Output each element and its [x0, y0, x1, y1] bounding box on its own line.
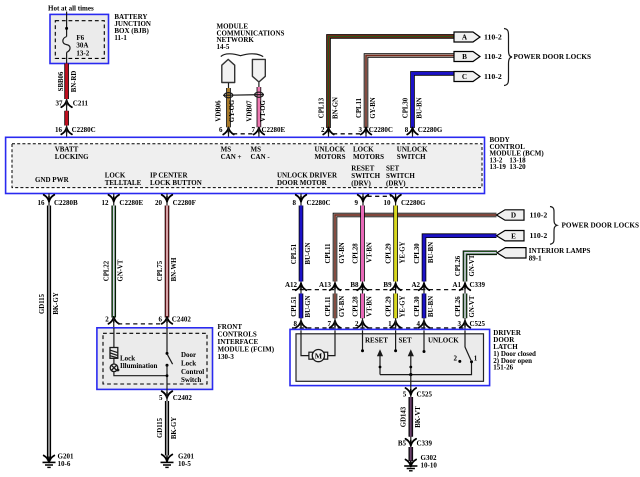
svg-text:10-5: 10-5: [178, 460, 191, 468]
connector arrows into BCM pins 2 3 8: [328, 127, 330, 137]
wire fuse to box bottom: [66, 52, 68, 63]
svg-text:M: M: [315, 351, 323, 360]
svg-text:110-2: 110-2: [530, 231, 548, 240]
wire into lock illumination: [113, 328, 115, 348]
svg-text:Switch: Switch: [181, 376, 201, 384]
svg-text:4: 4: [417, 320, 421, 328]
svg-text:16: 16: [55, 126, 63, 134]
svg-text:POWER DOOR LOCKS: POWER DOOR LOCKS: [514, 53, 591, 61]
ground G302 10-10: [406, 460, 417, 467]
svg-text:LOCK BUTTON: LOCK BUTTON: [150, 179, 202, 187]
svg-text:GN-VT: GN-VT: [469, 295, 476, 317]
svg-text:C339: C339: [470, 281, 486, 289]
svg-text:BU-BN: BU-BN: [417, 97, 424, 118]
svg-text:GN-VT: GN-VT: [118, 259, 125, 281]
svg-text:GY-BN: GY-BN: [339, 296, 346, 317]
wire CPL11 GY-BN to arrow D: [335, 215, 497, 282]
svg-text:CPL28: CPL28: [353, 296, 360, 317]
arrow connector E: [497, 231, 525, 241]
svg-text:Control: Control: [181, 368, 204, 376]
svg-text:CPL29: CPL29: [386, 296, 393, 317]
arrow connector A: [454, 32, 480, 42]
svg-text:CPL30: CPL30: [414, 296, 421, 317]
svg-text:10-10: 10-10: [421, 461, 438, 469]
dashed link 2-3: [333, 133, 362, 135]
svg-text:B8: B8: [350, 281, 359, 289]
wire CPL26 GN-VT to interior lamps: [465, 253, 497, 282]
svg-text:151-26: 151-26: [493, 363, 513, 371]
body control module BCM box: [6, 137, 485, 193]
svg-text:C2280G: C2280G: [401, 199, 426, 207]
svg-text:VDB06: VDB06: [216, 100, 223, 122]
svg-text:GD115: GD115: [157, 417, 164, 438]
svg-text:MOTORS: MOTORS: [315, 153, 346, 161]
svg-text:CPL13: CPL13: [319, 97, 326, 118]
wire VDB06 GY-OG: [228, 83, 230, 90]
svg-text:2: 2: [355, 320, 359, 328]
wire VDB07 VT-OG: [258, 83, 260, 91]
dashed link 6-7: [233, 133, 254, 135]
svg-text:BU-BN: BU-BN: [428, 296, 435, 317]
svg-text:37: 37: [56, 100, 64, 108]
battery junction box BJB: [50, 14, 109, 63]
svg-text:A1: A1: [452, 281, 461, 289]
motor M: [309, 352, 313, 359]
svg-text:VDB07: VDB07: [247, 100, 254, 122]
svg-text:(DRV): (DRV): [351, 179, 371, 187]
svg-text:CPL26: CPL26: [455, 296, 462, 317]
wire CPL29 YE-GY lower: [393, 294, 398, 319]
svg-text:89-1: 89-1: [529, 255, 542, 263]
latch UNLOCK contact: [423, 330, 425, 350]
svg-text:BK-GY: BK-GY: [53, 292, 60, 314]
latch bottom wire: [380, 363, 472, 375]
svg-text:A: A: [462, 34, 468, 42]
svg-text:110-2: 110-2: [530, 211, 548, 220]
svg-text:CPL11: CPL11: [356, 97, 363, 118]
svg-text:CPL22: CPL22: [104, 260, 111, 281]
svg-text:B5: B5: [398, 439, 407, 447]
svg-text:10: 10: [384, 199, 392, 207]
arrow connector B: [454, 52, 480, 62]
svg-text:CPL51: CPL51: [291, 243, 298, 264]
svg-text:BN-GN: BN-GN: [333, 97, 340, 119]
svg-text:1: 1: [388, 320, 392, 328]
svg-text:GY-BN: GY-BN: [370, 97, 377, 118]
svg-text:14-5: 14-5: [217, 43, 230, 51]
svg-text:VT-BN: VT-BN: [367, 296, 374, 317]
svg-text:5: 5: [403, 390, 407, 398]
door lock control switch: [166, 328, 168, 352]
svg-text:110-2: 110-2: [484, 72, 502, 81]
svg-text:B: B: [462, 53, 467, 61]
BCM bottom connector pins: [48, 194, 50, 206]
svg-text:BK-VT: BK-VT: [415, 406, 422, 428]
brace power door locks bottom: [550, 207, 557, 245]
connector C2402 pin 5: [162, 391, 173, 398]
svg-text:B9: B9: [383, 281, 392, 289]
wire GD115 BK-GY left: [47, 206, 51, 461]
connector C525 row: [292, 327, 466, 329]
svg-text:GN-VT: GN-VT: [469, 254, 476, 276]
svg-text:Door: Door: [181, 351, 196, 359]
svg-text:UNLOCK: UNLOCK: [428, 336, 459, 344]
dashed link 9-10: [368, 195, 392, 197]
svg-text:C525: C525: [470, 320, 486, 328]
dashed link 2-6: [118, 323, 163, 325]
svg-text:2: 2: [105, 315, 109, 323]
wire SBB06 BN-RD upper: [64, 64, 69, 100]
svg-text:7: 7: [328, 320, 332, 328]
network connector right: [252, 59, 265, 82]
svg-text:BN-RD: BN-RD: [71, 71, 78, 93]
wire CPL26 GN-VT lower: [463, 294, 468, 319]
svg-text:C2402: C2402: [173, 394, 193, 402]
svg-text:CPL75: CPL75: [157, 260, 164, 281]
connector C525 pin 5: [410, 375, 412, 397]
svg-text:MOTORS: MOTORS: [353, 153, 384, 161]
svg-text:POWER DOOR LOCKS: POWER DOOR LOCKS: [562, 222, 639, 230]
wire CPL22 GN-VT: [111, 206, 116, 318]
wire CPL11 GY-BN lower: [333, 294, 338, 319]
svg-text:C2280E: C2280E: [262, 126, 286, 134]
svg-text:GND PWR: GND PWR: [35, 176, 70, 184]
network connector left: [222, 59, 235, 82]
svg-text:CPL51: CPL51: [291, 296, 298, 317]
svg-text:13-19 13-20: 13-19 13-20: [490, 163, 527, 171]
svg-text:GY-OG: GY-OG: [229, 99, 236, 122]
svg-text:C211: C211: [73, 100, 89, 108]
svg-text:CPL29: CPL29: [386, 243, 393, 264]
svg-text:C525: C525: [417, 390, 433, 398]
fuse F6 30A: [63, 37, 70, 53]
svg-text:D: D: [511, 212, 516, 220]
svg-text:6: 6: [159, 315, 163, 323]
svg-text:3: 3: [359, 126, 363, 134]
wire CPL28 VT-BN upper: [360, 206, 365, 282]
wire CPL30 BU-BN to arrow C: [413, 73, 455, 128]
svg-text:TELLTALE: TELLTALE: [105, 179, 142, 187]
svg-text:RESET: RESET: [365, 336, 388, 344]
svg-text:Illumination: Illumination: [120, 362, 157, 370]
svg-text:110-2: 110-2: [484, 33, 502, 42]
svg-text:C: C: [462, 73, 467, 81]
svg-text:20: 20: [155, 199, 163, 207]
svg-text:A2: A2: [411, 281, 420, 289]
svg-text:C2280E: C2280E: [119, 199, 143, 207]
svg-text:C2280F: C2280F: [173, 199, 196, 207]
svg-text:A13: A13: [319, 281, 332, 289]
svg-text:E: E: [511, 232, 516, 240]
svg-text:Lock: Lock: [181, 359, 196, 367]
connector C339 row: [300, 282, 302, 294]
svg-text:GD143: GD143: [401, 406, 408, 427]
svg-text:CPL30: CPL30: [403, 97, 410, 118]
svg-text:CAN -: CAN -: [251, 153, 271, 161]
arrow connector C: [454, 72, 480, 82]
svg-text:C339: C339: [417, 439, 433, 447]
svg-text:130-3: 130-3: [218, 353, 235, 361]
svg-text:16: 16: [38, 199, 46, 207]
ground G201 10-5: [162, 455, 173, 462]
svg-text:6: 6: [219, 126, 223, 134]
svg-text:C2402: C2402: [172, 315, 192, 323]
wire CPL75 BN-WH: [165, 206, 170, 318]
wire SBB06 BN-RD lower: [64, 111, 69, 126]
svg-text:SWITCH: SWITCH: [397, 153, 426, 161]
svg-text:12: 12: [102, 199, 110, 207]
svg-text:A12: A12: [285, 281, 298, 289]
svg-text:BN-WH: BN-WH: [171, 257, 178, 282]
svg-text:Hot at all times: Hot at all times: [48, 5, 94, 13]
svg-text:110-2: 110-2: [484, 52, 502, 61]
svg-text:GY-BN: GY-BN: [339, 242, 346, 263]
svg-text:CPL26: CPL26: [455, 255, 462, 276]
svg-text:DOOR MOTOR: DOOR MOTOR: [277, 179, 328, 187]
svg-text:1: 1: [474, 355, 478, 363]
svg-text:BK-GY: BK-GY: [171, 417, 178, 439]
wire CPL30 BU-BN to arrow E: [424, 236, 497, 282]
front controls interface module FCIM box: [97, 328, 213, 390]
latch door switch: [464, 330, 466, 347]
svg-text:C2280C: C2280C: [72, 126, 96, 134]
connector C339 pin B5: [410, 437, 412, 447]
svg-text:LOCKING: LOCKING: [55, 153, 89, 161]
wire resistor to bulb: [113, 358, 115, 364]
svg-text:9: 9: [355, 199, 359, 207]
latch motor wires: [301, 330, 309, 355]
svg-text:GD115: GD115: [39, 293, 46, 314]
svg-text:7: 7: [252, 126, 256, 134]
connector C2280C pin 16: [61, 127, 72, 134]
svg-text:10-6: 10-6: [58, 460, 71, 468]
svg-text:2: 2: [454, 355, 458, 363]
svg-text:8: 8: [293, 199, 297, 207]
wire CPL30 BU-BN lower: [422, 294, 427, 319]
svg-text:C2280G: C2280G: [418, 126, 443, 134]
svg-text:CPL30: CPL30: [414, 243, 421, 264]
latch actuator arrow left: [377, 349, 383, 356]
svg-text:YE-GY: YE-GY: [400, 241, 407, 263]
brace power door locks top: [504, 29, 512, 86]
junction dot: [65, 27, 68, 30]
svg-text:CPL28: CPL28: [353, 243, 360, 264]
svg-text:8: 8: [405, 126, 409, 134]
svg-text:8: 8: [294, 320, 298, 328]
svg-text:C2280C: C2280C: [369, 126, 393, 134]
svg-text:11-1: 11-1: [114, 34, 127, 42]
svg-text:(DRV): (DRV): [386, 179, 406, 187]
arrow connector D: [497, 210, 525, 220]
svg-text:CPL11: CPL11: [325, 243, 332, 264]
latch RESET contact: [362, 330, 364, 349]
wire GD115 BK-GY center: [165, 401, 169, 456]
brace over network connectors: [221, 54, 263, 57]
svg-text:2: 2: [321, 126, 325, 134]
wire LED to switch: [114, 372, 167, 376]
svg-text:CPL11: CPL11: [325, 296, 332, 317]
svg-text:13-2: 13-2: [76, 49, 89, 57]
svg-text:5: 5: [159, 394, 163, 402]
twisted pair symbol: [223, 94, 264, 97]
latch SET contact: [395, 330, 397, 349]
connector C2280E pins 6 7: [223, 128, 234, 135]
svg-text:C2280C: C2280C: [307, 199, 331, 207]
wire CPL13 BN-GN to arrow A: [329, 36, 455, 128]
wire into BJB: [66, 12, 68, 37]
connector C211 pin 37: [61, 100, 72, 107]
connector C2402 pins 2 6: [108, 317, 119, 324]
svg-text:VT-OG: VT-OG: [260, 99, 267, 121]
driver door latch box: [290, 329, 490, 385]
ground G201 10-6: [44, 456, 55, 463]
svg-text:C2280B: C2280B: [54, 199, 78, 207]
wire CPL11 GY-BN to arrow B: [366, 56, 454, 129]
svg-text:BU-GN: BU-GN: [305, 242, 312, 264]
wire CPL51 BU-GN lower: [299, 294, 304, 319]
wire GD143 BK-VT upper: [408, 397, 413, 437]
resistor lock illumination: [110, 348, 118, 359]
latch actuator arrow right: [408, 349, 414, 356]
svg-text:SET: SET: [399, 336, 413, 344]
svg-text:BU-BN: BU-BN: [428, 242, 435, 263]
wire GD143 BK-VT lower: [408, 447, 413, 461]
LED lock illumination: [110, 364, 118, 372]
svg-text:3: 3: [458, 320, 462, 328]
wire CPL51 BU-GN upper: [299, 206, 304, 282]
wire CPL29 YE-GY upper: [393, 206, 398, 282]
wire CPL28 VT-BN lower: [360, 294, 365, 319]
arrow connector interior lamps: [497, 248, 526, 258]
svg-text:VT-BN: VT-BN: [367, 242, 374, 263]
svg-text:BU-GN: BU-GN: [305, 295, 312, 317]
svg-text:SBB06: SBB06: [58, 71, 65, 91]
svg-text:CAN +: CAN +: [221, 153, 242, 161]
svg-text:YE-GY: YE-GY: [400, 295, 407, 317]
